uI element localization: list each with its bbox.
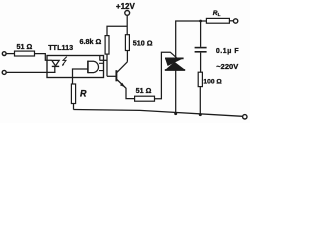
wire R bottom to rail — [73, 104, 75, 110]
svg-text:100 Ω: 100 Ω — [203, 78, 222, 85]
svg-text:51 Ω: 51 Ω — [136, 86, 152, 95]
wire 6.8k top to +12V branch — [107, 26, 127, 35]
wire J1 to R1 — [6, 53, 14, 55]
optocoupler U1 TTL113 box — [47, 43, 104, 78]
svg-text:TTL113: TTL113 — [48, 43, 73, 52]
terminal J3 (AC top) — [233, 19, 237, 23]
wire triac MT1 to rail — [175, 70, 177, 114]
bottom rail wire — [74, 110, 243, 117]
terminal +12V — [116, 2, 136, 15]
svg-text:510 Ω: 510 Ω — [133, 38, 153, 47]
wire 6.8k bottom to base node — [106, 54, 108, 76]
wire +12V down to 510 — [126, 15, 128, 34]
wire 100Ω to rail — [199, 87, 201, 115]
wire cap branch down — [200, 21, 202, 47]
svg-text:0.1μ F: 0.1μ F — [216, 48, 239, 55]
wire gate resistor to triac gate — [155, 52, 177, 98]
collector exit wire — [100, 59, 108, 61]
triac VS1 — [165, 58, 185, 70]
wire base node to Q1 base — [107, 75, 116, 77]
wire R1 to optocoupler LED anode — [35, 54, 52, 61]
wire RL to terminal J3 — [229, 20, 233, 22]
resistor R3 510Ω — [125, 35, 152, 51]
LED D1 inside optocoupler — [52, 60, 59, 72]
wire Q1 emitter to 51Ω gate resistor — [124, 86, 135, 99]
junction node MT1-rail — [174, 112, 177, 115]
svg-text:L: L — [218, 12, 221, 17]
wire cap to 100Ω — [200, 53, 202, 73]
resistor R2 6.8kΩ — [80, 36, 110, 55]
resistor R5 100Ω — [198, 72, 222, 86]
svg-text:51 Ω: 51 Ω — [17, 42, 33, 51]
wire triac MT2 up and to RL — [176, 21, 207, 58]
junction node 100Ω-rail — [199, 113, 202, 116]
phototransistor VT1 inside optocoupler — [88, 56, 104, 74]
transistor Q1 (NPN) — [116, 62, 127, 87]
svg-text:~220V: ~220V — [216, 62, 238, 71]
light arrow (bolt) — [62, 57, 67, 67]
terminal J2 (lower input) — [2, 70, 6, 74]
resistor RL (load) — [206, 10, 229, 23]
wire 510 bottom to collector — [126, 51, 128, 62]
wire J2 to LED cathode — [6, 71, 55, 73]
resistor R1 51Ω (input) — [15, 42, 35, 56]
terminal J4 (AC bottom) — [243, 115, 247, 119]
base pin wire to R — [73, 69, 88, 84]
svg-text:R: R — [80, 88, 87, 98]
resistor R (base bleed) — [71, 84, 87, 104]
resistor R4 51Ω (gate) — [135, 86, 155, 101]
junction node cap tap — [199, 20, 202, 23]
terminal J1 (upper input) — [2, 52, 6, 56]
svg-text:6.8k Ω: 6.8k Ω — [80, 37, 102, 46]
capacitor C1 0.1µF — [195, 48, 240, 55]
svg-text:+12V: +12V — [116, 2, 136, 11]
